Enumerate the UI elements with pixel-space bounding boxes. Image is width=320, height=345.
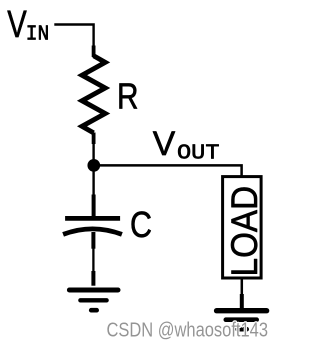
svg-text:V: V [153, 125, 176, 163]
ground (load) [217, 311, 267, 330]
capacitor C curved plate [63, 229, 122, 235]
wire node to capacitor [92, 171, 94, 196]
capacitor C lead top [92, 195, 96, 219]
svg-text:C: C [130, 204, 152, 245]
load box [223, 177, 262, 278]
svg-text:OUT: OUT [177, 142, 220, 166]
ground (capacitor) [69, 290, 118, 310]
svg-text:IN: IN [26, 23, 50, 47]
resistor R lead bottom [92, 133, 96, 145]
node label V_IN [7, 4, 49, 47]
wire capacitor to ground [92, 248, 94, 272]
wire load to ground [241, 278, 244, 296]
svg-text:V: V [7, 4, 27, 46]
capacitor C top plate [65, 216, 120, 221]
wire V_IN to resistor [54, 25, 93, 48]
node label V_OUT [153, 125, 220, 166]
resistor R [82, 56, 105, 133]
node junction dot [87, 159, 100, 172]
svg-text:R: R [117, 76, 139, 117]
resistor R lead top [92, 46, 96, 58]
capacitor ground lead [91, 271, 95, 286]
svg-text:CSDN @whaosoft143: CSDN @whaosoft143 [107, 320, 269, 342]
load ground lead [240, 294, 244, 308]
wire resistor to node [92, 143, 94, 165]
svg-text:LOAD: LOAD [224, 186, 265, 277]
wire node to load (V_OUT net) [94, 165, 242, 176]
capacitor lead bottom [91, 232, 95, 249]
